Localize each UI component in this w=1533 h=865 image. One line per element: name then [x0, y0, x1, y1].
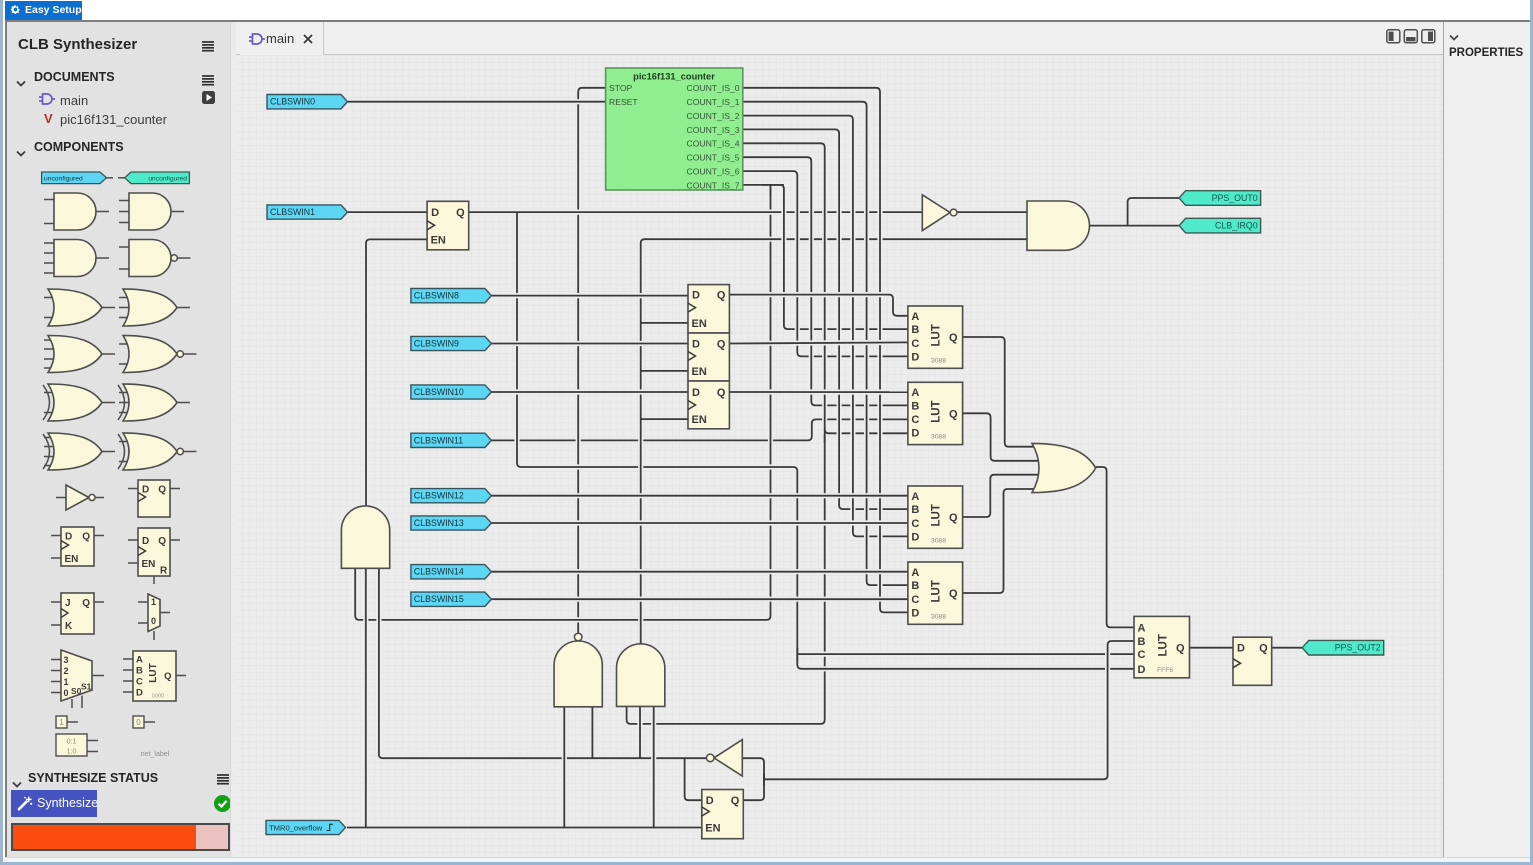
palette bit converter	[56, 734, 98, 756]
D flip-flop DFF1	[427, 201, 469, 250]
wire DFF4.Q to PPS_OUT2	[1272, 645, 1303, 650]
input pin CLBSWIN0	[267, 95, 348, 109]
wire DFF1.Q to inverter U2	[469, 210, 923, 215]
wire CLBSWIN9 to FF2.D	[491, 341, 688, 346]
palette constant 1	[56, 716, 78, 728]
wire node net to LUT5.C	[797, 651, 1134, 656]
editor tab main	[240, 22, 324, 55]
output pin PPS_OUT0	[1179, 191, 1261, 206]
palette gate XOR3 R	[118, 384, 190, 421]
wire AND-T output to DFF1.EN	[366, 239, 427, 506]
bottom strip	[5, 857, 1530, 862]
palette gate XOR4 L	[43, 433, 115, 470]
collapse chevron	[1449, 28, 1459, 35]
wire COUNT_IS_3 to LUT	[743, 129, 908, 509]
palette gate NXOR2 R	[118, 433, 196, 470]
LUT LUT3	[908, 486, 963, 548]
wire AND3-T input B to TMR0 net	[363, 568, 368, 827]
wire NAND output to STOP	[578, 88, 605, 633]
output pin PPS_OUT2	[1302, 640, 1384, 655]
wire DFF3.Q net to LUT5.B	[764, 641, 1134, 779]
wire inverter U3 output net	[379, 568, 707, 758]
palette gate AND3 R	[119, 193, 184, 230]
output pin CLB_IRQ0	[1179, 218, 1261, 233]
palette LUT	[123, 651, 186, 701]
palette gate NAND2 R	[119, 240, 190, 277]
wire AND3-V input B to U3 net	[637, 706, 642, 758]
palette gate OR2 L	[44, 289, 115, 326]
palette input pin unconfigured	[42, 172, 107, 184]
input pin CLBSWIN8	[411, 289, 492, 303]
wire CLBSWIN0 to RESET	[348, 99, 606, 104]
wire CLBSWIN8 to FF1.D	[491, 293, 688, 298]
progress bar	[11, 823, 230, 851]
menu icon	[202, 73, 214, 84]
wire CLBSWIN11 to LUT2.C	[491, 419, 908, 440]
menu icon	[217, 772, 229, 783]
D flip-flop DFF3	[702, 790, 744, 839]
verilog block pic16f131_counter	[606, 68, 743, 190]
left sidebar panel	[7, 21, 236, 857]
D flip-flop DFF4	[1233, 637, 1272, 685]
wire COUNT_IS_0 to LUT	[743, 88, 908, 613]
wire COUNT_IS_7 branch to AND3-T input A	[355, 185, 770, 620]
Easy Setup tab	[5, 1, 82, 20]
D flip-flop p	[61, 527, 94, 566]
D flip-flop p	[138, 528, 170, 576]
palette gate OR4 L	[44, 336, 115, 373]
wire LUT1.Q to OR4 in1	[963, 337, 1039, 447]
palette constant 0	[133, 716, 155, 728]
wire CLBSWIN1 to DFF1.D	[348, 210, 427, 215]
wire COUNT_IS_6 to LUT	[743, 171, 908, 356]
palette inverter	[56, 485, 104, 510]
menu icon	[202, 39, 214, 50]
LUT LUT4	[908, 562, 963, 624]
D flip-flop FF1	[688, 285, 729, 333]
input pin TMR0_overflow	[266, 820, 346, 834]
junction DFF3.Q tap	[763, 773, 765, 786]
editor tab bar	[236, 22, 1443, 55]
wire CLBSWIN10 to FF3.D	[491, 389, 688, 394]
LUT LUT5	[1134, 616, 1190, 677]
panel top border	[5, 20, 1530, 22]
inverter U3	[706, 740, 742, 776]
wire COUNT_IS_4 branch to AND3 input A	[627, 433, 825, 724]
wire DFF1.Q branch to LUT5.D	[517, 212, 1134, 669]
input pin CLBSWIN1	[267, 205, 348, 219]
wire COUNT_IS_5 to LUT	[743, 157, 908, 405]
input pin CLBSWIN11	[411, 433, 492, 447]
layout buttons	[1386, 29, 1436, 44]
palette D flip-flop with EN and R	[128, 528, 180, 584]
AND gate AND3-V	[617, 644, 665, 707]
wire FF2.Q to LUT1.C	[729, 342, 908, 343]
inverter U2	[922, 195, 957, 231]
wire NAND input A to TMR0 net	[562, 707, 567, 828]
palette D flip-flop	[128, 480, 180, 517]
NAND gate NAND1	[554, 641, 602, 707]
palette output pin unconfigured	[125, 172, 190, 184]
wire EN feed FF3	[641, 418, 688, 420]
wire AND2 output to CLB_IRQ0	[1089, 223, 1179, 228]
sidebar right scroll gutter	[230, 22, 236, 857]
status ok indicator	[214, 795, 231, 812]
wire LUT5.Q to DFF4.D	[1190, 645, 1234, 650]
run button	[202, 91, 215, 104]
junction COUNT_IS_4 branch	[824, 429, 826, 443]
wire inverter U2 output to AND2 input A	[957, 210, 1027, 215]
palette gate XOR2 L	[43, 384, 115, 421]
AND gate AND3-T	[341, 506, 389, 568]
document item pic16f131_counter	[44, 111, 53, 126]
palette 4:1 mux	[51, 650, 104, 708]
collapse chevron	[16, 144, 26, 151]
properties panel	[1443, 22, 1530, 857]
palette gate AND4 L	[44, 240, 109, 277]
D flip-flop FF2	[688, 333, 729, 381]
wire FF1.Q to LUT1.A	[729, 295, 908, 316]
wire FF3.Q to LUT2.A	[729, 389, 908, 394]
LUT LUT1	[908, 306, 963, 368]
palette gate OR3 R	[119, 289, 190, 326]
document item main	[39, 92, 55, 106]
input pin CLBSWIN9	[411, 336, 492, 350]
palette JK flip-flop	[51, 593, 104, 634]
Synthesize button	[11, 790, 97, 817]
wire CLBSWIN12 to LUT3.A	[491, 493, 908, 498]
palette gate NOR2 R	[119, 336, 196, 373]
wire EN feed FF2	[641, 370, 688, 372]
sidebar title CLB Synthesizer	[18, 36, 137, 53]
OR gate OR4	[1032, 443, 1096, 492]
wire CLBSWIN15 to LUT4.C	[491, 597, 908, 602]
wire AND2 output branch to PPS_OUT0	[1128, 198, 1180, 226]
wire TMR0_overflow net	[347, 825, 702, 830]
input pin CLBSWIN15	[411, 592, 492, 606]
wire palette pin link	[107, 177, 125, 179]
palette 2:1 mux	[138, 594, 170, 640]
wire COUNT_IS_2 to LUT	[743, 116, 908, 537]
wire LUT3.Q to OR4 in3	[963, 475, 1046, 517]
wire DFF3.Q to inverter U3 input	[742, 758, 764, 800]
wire COUNT_IS_1 to LUT	[743, 102, 908, 585]
palette gate AND2 L	[44, 193, 109, 230]
input pin CLBSWIN14	[411, 565, 492, 579]
wire LUT2.Q to OR4 in2	[963, 413, 1046, 461]
input pin CLBSWIN10	[411, 385, 492, 399]
wire U3 net to DFF3.D	[685, 758, 702, 800]
collapse chevron	[16, 74, 26, 81]
wire CLBSWIN14 to LUT4.A	[491, 569, 908, 574]
wire OR4 output to LUT5.A	[1096, 467, 1134, 627]
palette D flip-flop with EN	[51, 527, 104, 566]
wire NAND input B to U3 net	[590, 707, 595, 758]
D flip-flop FF3	[688, 381, 729, 429]
LUT LUT2	[908, 382, 963, 444]
wire EN feed FF1	[641, 322, 688, 324]
AND gate AND2	[1027, 201, 1089, 250]
schematic canvas	[236, 55, 1443, 861]
wire AND3-V input C to TMR0 net	[651, 706, 656, 827]
wire COUNT_IS_7 to LUT	[743, 185, 908, 329]
wire COUNT_IS_4 to LUT	[743, 143, 908, 433]
input pin CLBSWIN12	[411, 489, 492, 503]
input pin CLBSWIN13	[411, 516, 492, 530]
wire AND3-V output to AND2 input B	[641, 239, 1027, 644]
junction COUNT_IS_7 branch	[762, 185, 784, 196]
wire LUT4.Q to OR4 in4	[963, 489, 1039, 593]
D flip-flop palette DFF	[138, 480, 170, 517]
collapse chevron	[12, 775, 22, 782]
junction LUT5.C tap	[796, 648, 798, 661]
wire CLBSWIN13 to LUT3.C	[491, 520, 908, 525]
